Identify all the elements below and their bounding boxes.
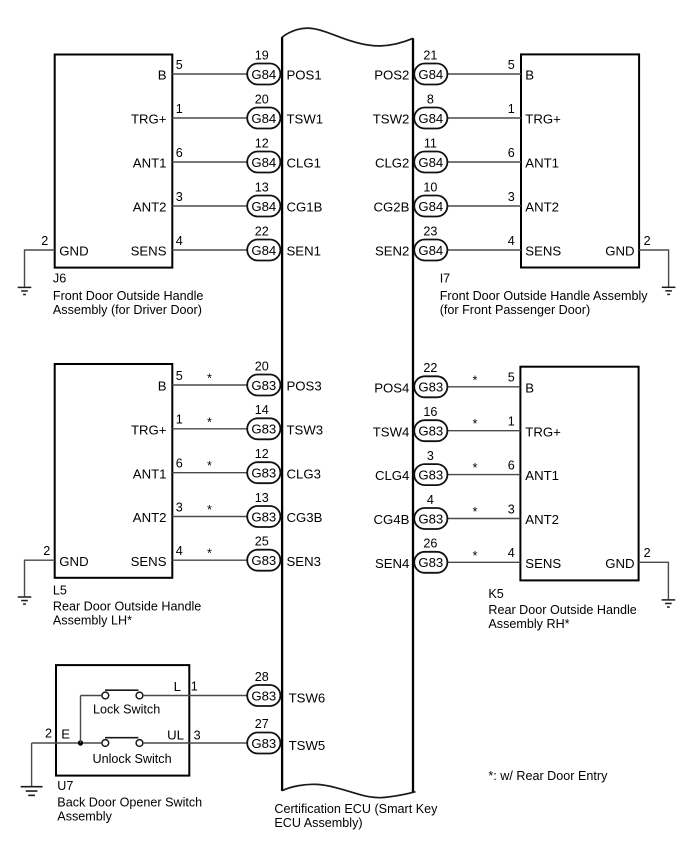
pin label ANT2 (right box) [525, 512, 559, 527]
connector oval G84 pin 21 (POS2) [414, 64, 447, 85]
svg-text:1: 1 [176, 413, 183, 427]
wire L5 pin 3 (ANT2) to G83 CG3B [172, 516, 248, 518]
net label TSW4 [373, 424, 410, 439]
connector oval G83 pin 26 (SEN4) [414, 552, 447, 573]
ground symbol at L5 GND [18, 597, 32, 604]
connector name G83 (TSW6 oval) [251, 688, 276, 703]
svg-text:*: * [207, 372, 212, 386]
connector name G84 (left oval) [251, 243, 276, 258]
svg-text:G83: G83 [251, 553, 276, 568]
pin number 5 (right box) [508, 371, 515, 385]
pin label ANT2 (left box) [133, 510, 167, 525]
pin number 5 (left box) [176, 58, 183, 72]
net label TSW1 [287, 112, 324, 127]
connector oval G83 pin 4 (CG4B) [414, 508, 447, 529]
connector name G84 (left oval) [251, 111, 276, 126]
net label TSW2 [373, 112, 410, 127]
svg-text:TRG+: TRG+ [131, 112, 167, 127]
pin number 6 (right box) [508, 458, 515, 472]
pin number 1 (left box) [176, 413, 183, 427]
svg-text:16: 16 [423, 405, 437, 419]
net label POS1 [287, 68, 322, 83]
pin number 14 above left oval [255, 403, 269, 417]
svg-text:I7: I7 [440, 271, 451, 285]
asterisk footnote mark (right) [473, 549, 478, 563]
connector name G84 (right oval) [418, 243, 443, 258]
connector oval G83 pin 28 (TSW6) [247, 685, 280, 706]
svg-text:CLG4: CLG4 [375, 468, 409, 483]
pin number 5 (right box) [508, 58, 515, 72]
svg-text:TSW4: TSW4 [373, 424, 410, 439]
connector oval G84 pin 13 (CG1B) [247, 196, 280, 217]
net label SEN4 [375, 556, 409, 571]
pin label TRG+ (left box) [131, 112, 167, 127]
svg-text:TRG+: TRG+ [525, 112, 561, 127]
svg-text:ANT1: ANT1 [525, 156, 559, 171]
connector oval G84 pin 11 (CLG2) [414, 152, 447, 173]
svg-text:CG1B: CG1B [287, 200, 323, 215]
svg-text:3: 3 [427, 449, 434, 463]
svg-text:ANT1: ANT1 [133, 156, 167, 171]
connector name G83 (right oval) [418, 511, 443, 526]
svg-text:1: 1 [508, 102, 515, 116]
pin number 13 above left oval [255, 180, 269, 194]
pin number 27 above G83 TSW5 [255, 717, 269, 731]
svg-text:22: 22 [423, 361, 437, 375]
net label CG4B [373, 512, 409, 527]
net label TSW3 [287, 422, 324, 437]
asterisk footnote mark (left) [207, 503, 212, 517]
pin label ANT2 (right box) [525, 200, 559, 215]
Certification ECU band torn top edge [282, 28, 413, 46]
svg-text:POS1: POS1 [287, 68, 322, 83]
connector oval G84 pin 10 (CG2B) [414, 196, 447, 217]
svg-text:*: * [207, 503, 212, 517]
svg-text:*: * [207, 459, 212, 473]
pin label TRG+ (right box) [525, 424, 561, 439]
svg-text:*: * [473, 417, 478, 431]
connector oval G84 pin 23 (SEN2) [414, 240, 447, 261]
svg-text:(for Front Passenger Door): (for Front Passenger Door) [440, 303, 590, 317]
wire L5 pin 4 (SENS) to G83 SEN3 [172, 559, 248, 561]
svg-text:27: 27 [255, 717, 269, 731]
pin number 28 above G83 TSW6 [255, 670, 269, 684]
pin label TRG+ (right box) [525, 112, 561, 127]
svg-text:2: 2 [644, 234, 651, 248]
wire G84 POS2 to I7 pin 5 (B) [446, 73, 521, 75]
svg-text:G84: G84 [251, 243, 276, 258]
ground symbol at K5 GND [662, 600, 676, 607]
svg-text:12: 12 [255, 136, 269, 150]
wire G83 SEN4 to K5 pin 4 (SENS) [446, 561, 520, 563]
svg-text:5: 5 [508, 371, 515, 385]
Certification ECU band right edge (wire trunk) [412, 38, 414, 792]
pin label E (U7) [61, 726, 70, 741]
svg-text:TSW2: TSW2 [373, 112, 410, 127]
pin label L (U7 lock) [174, 679, 181, 694]
pin label SENS (right box) [525, 556, 561, 571]
svg-text:4: 4 [176, 544, 183, 558]
svg-text:*: * [473, 373, 478, 387]
svg-text:3: 3 [176, 190, 183, 204]
net label CG2B [373, 200, 409, 215]
svg-text:L: L [174, 679, 181, 694]
pin label ANT1 (right box) [525, 156, 559, 171]
connector box L5 (Rear Door Outside Handle Assembly LH) [55, 364, 173, 578]
svg-text:4: 4 [508, 546, 515, 560]
label Lock Switch [93, 703, 160, 717]
asterisk footnote mark (right) [473, 417, 478, 431]
wire J6 pin 5 (B) to G84 POS1 [172, 73, 248, 75]
wire J6 pin 4 (SENS) to G84 SEN1 [172, 249, 248, 251]
svg-text:26: 26 [423, 537, 437, 551]
svg-text:TSW3: TSW3 [287, 422, 324, 437]
svg-text:1: 1 [508, 415, 515, 429]
svg-text:TSW5: TSW5 [289, 738, 326, 753]
pin number 3 (left box) [176, 190, 183, 204]
svg-text:POS3: POS3 [287, 379, 322, 394]
wire G84 CLG2 to I7 pin 6 (ANT1) [446, 161, 521, 163]
svg-text:G83: G83 [418, 468, 443, 483]
svg-text:2: 2 [644, 546, 651, 560]
svg-text:23: 23 [423, 224, 437, 238]
svg-text:Assembly: Assembly [57, 809, 112, 823]
pin number 3 (left box) [176, 500, 183, 514]
svg-text:B: B [158, 379, 167, 394]
svg-text:ANT2: ANT2 [525, 200, 559, 215]
asterisk footnote mark (right) [473, 373, 478, 387]
net label POS2 [374, 68, 409, 83]
pin number 3 (right box) [508, 502, 515, 516]
pin label GND (K5) [605, 556, 634, 571]
connector name G83 (TSW5 oval) [251, 736, 276, 751]
svg-text:G84: G84 [418, 111, 443, 126]
pin number 4 (right box) [508, 546, 515, 560]
asterisk footnote mark (left) [207, 372, 212, 386]
wire J6 pin 3 (ANT2) to G84 CG1B [172, 205, 248, 207]
connector name G84 (left oval) [251, 67, 276, 82]
ground symbol at U7 E (larger) [21, 787, 43, 796]
wire G83 CG4B to K5 pin 3 (ANT2) [446, 518, 520, 520]
caption I7 Front Door Outside Handle Assembly (for Front Passenger Door) [440, 271, 649, 317]
ground symbol at J6 GND [18, 287, 32, 294]
svg-text:6: 6 [508, 458, 515, 472]
Lock Switch blade (open) [105, 689, 138, 691]
svg-text:6: 6 [176, 146, 183, 160]
pin number 6 (left box) [176, 457, 183, 471]
svg-text:5: 5 [176, 58, 183, 72]
pin label GND (J6) [59, 244, 88, 259]
svg-text:GND: GND [605, 244, 634, 259]
junction dot node E inside U7 [78, 740, 83, 745]
svg-text:21: 21 [423, 48, 437, 62]
net label CLG2 [375, 156, 409, 171]
svg-text:1: 1 [176, 102, 183, 116]
connector oval G83 pin 20 (POS3) [247, 375, 280, 396]
net label SEN1 [287, 244, 321, 259]
connector name G84 (right oval) [418, 111, 443, 126]
label Unlock Switch [93, 752, 172, 766]
svg-text:1: 1 [191, 680, 198, 694]
net label TSW5 [289, 738, 326, 753]
svg-text:20: 20 [255, 92, 269, 106]
pin label ANT1 (right box) [525, 468, 559, 483]
pin number 12 above left oval [255, 136, 269, 150]
svg-text:G84: G84 [418, 155, 443, 170]
connector name G83 (right oval) [418, 380, 443, 395]
svg-text:SENS: SENS [525, 556, 561, 571]
wire ground drop from U7 E [31, 743, 33, 786]
svg-text:Assembly (for Driver Door): Assembly (for Driver Door) [53, 303, 202, 317]
pin number 4 (left box) [176, 234, 183, 248]
connector oval G83 pin 27 (TSW5) [247, 733, 280, 754]
pin label B (left box) [158, 379, 167, 394]
svg-text:*: w/ Rear Door Entry: *: w/ Rear Door Entry [488, 769, 608, 783]
wire J6 pin 1 (TRG+) to G84 TSW1 [172, 117, 248, 119]
svg-text:SEN3: SEN3 [287, 554, 321, 569]
svg-text:6: 6 [508, 146, 515, 160]
svg-text:Front Door Outside Handle: Front Door Outside Handle [53, 289, 204, 303]
pin label TRG+ (left box) [131, 422, 167, 437]
svg-text:G83: G83 [251, 509, 276, 524]
svg-text:5: 5 [508, 58, 515, 72]
svg-text:G84: G84 [418, 243, 443, 258]
svg-text:CLG2: CLG2 [375, 156, 409, 171]
svg-text:25: 25 [255, 535, 269, 549]
svg-text:GND: GND [59, 554, 88, 569]
svg-text:G83: G83 [418, 380, 443, 395]
pin number 11 above right oval [424, 136, 437, 150]
svg-text:14: 14 [255, 403, 269, 417]
wire L5 pin 1 (TRG+) to G83 TSW3 [172, 428, 248, 430]
net label CG3B [287, 510, 323, 525]
pin number 23 above right oval [423, 224, 437, 238]
connector name G83 (left oval) [251, 378, 276, 393]
pin number 4 (left box) [176, 544, 183, 558]
pin label ANT1 (left box) [133, 156, 167, 171]
svg-text:G83: G83 [251, 422, 276, 437]
caption K5 Rear Door Outside Handle Assembly RH [488, 587, 636, 631]
pin number 12 above left oval [255, 447, 269, 461]
caption L5 Rear Door Outside Handle Assembly LH [53, 584, 201, 628]
connector name G83 (right oval) [418, 468, 443, 483]
pin label SENS (left box) [131, 554, 167, 569]
pin label GND (I7) [605, 244, 634, 259]
svg-text:POS2: POS2 [374, 68, 409, 83]
svg-text:4: 4 [508, 234, 515, 248]
pin number 2 (I7 GND) [644, 234, 651, 248]
pin number 10 above right oval [423, 180, 437, 194]
svg-text:G84: G84 [251, 111, 276, 126]
pin number 6 (right box) [508, 146, 515, 160]
wire L5 pin 2 (GND) to ground [25, 560, 55, 596]
svg-text:Front Door Outside Handle Asse: Front Door Outside Handle Assembly [440, 289, 649, 303]
net label POS3 [287, 379, 322, 394]
connector oval G83 pin 25 (SEN3) [247, 550, 280, 571]
svg-text:G83: G83 [251, 736, 276, 751]
connector name G83 (right oval) [418, 555, 443, 570]
svg-text:L5: L5 [53, 584, 67, 598]
pin number 3 (U7) [194, 729, 201, 743]
svg-text:G83: G83 [418, 555, 443, 570]
svg-text:13: 13 [255, 491, 269, 505]
pin number 1 (left box) [176, 102, 183, 116]
svg-text:G84: G84 [418, 67, 443, 82]
svg-text:E: E [61, 726, 70, 741]
wire G84 SEN2 to I7 pin 4 (SENS) [446, 249, 521, 251]
svg-text:B: B [158, 68, 167, 83]
connector name G84 (right oval) [418, 155, 443, 170]
pin number 22 above right oval [423, 361, 437, 375]
svg-text:CG3B: CG3B [287, 510, 323, 525]
svg-text:CLG3: CLG3 [287, 466, 321, 481]
svg-text:SENS: SENS [131, 244, 167, 259]
svg-text:ANT1: ANT1 [133, 466, 167, 481]
connector oval G84 pin 12 (CLG1) [247, 152, 280, 173]
pin label B (right box) [525, 380, 534, 395]
svg-text:TRG+: TRG+ [131, 422, 167, 437]
svg-text:*: * [473, 505, 478, 519]
connector box J6 (Front Door Outside Handle Assembly for Driver Door) [55, 55, 173, 268]
pin number 6 (left box) [176, 146, 183, 160]
svg-text:SENS: SENS [131, 554, 167, 569]
pin label ANT1 (left box) [133, 466, 167, 481]
connector oval G83 pin 12 (CLG3) [247, 462, 280, 483]
connector name G83 (left oval) [251, 422, 276, 437]
svg-text:Rear Door Outside Handle: Rear Door Outside Handle [488, 603, 636, 617]
wire Unlock Switch to G83 TSW5 (U7 pin 3, UL) [143, 742, 248, 744]
ground symbol at I7 GND [662, 287, 676, 294]
svg-text:J6: J6 [53, 271, 66, 285]
svg-text:3: 3 [508, 190, 515, 204]
svg-text:2: 2 [41, 234, 48, 248]
svg-text:ANT1: ANT1 [525, 468, 559, 483]
pin number 4 (right box) [508, 234, 515, 248]
wire I7 pin 2 (GND) to ground [639, 250, 669, 287]
asterisk footnote mark (left) [207, 459, 212, 473]
svg-text:SEN1: SEN1 [287, 244, 321, 259]
pin number 1 (right box) [508, 415, 515, 429]
svg-text:12: 12 [255, 447, 269, 461]
connector name G83 (right oval) [418, 424, 443, 439]
svg-text:TRG+: TRG+ [525, 424, 561, 439]
net label CLG1 [287, 156, 321, 171]
pin number 2 (J6 GND) [41, 234, 48, 248]
svg-text:Assembly LH*: Assembly LH* [53, 614, 132, 628]
svg-text:3: 3 [194, 729, 201, 743]
pin number 3 above right oval [427, 449, 434, 463]
svg-text:G83: G83 [251, 466, 276, 481]
wire K5 pin 2 (GND) to ground [639, 562, 669, 599]
wire node E branch to Lock Switch left contact [81, 695, 102, 697]
svg-text:Unlock Switch: Unlock Switch [93, 752, 172, 766]
wire Lock Switch to G83 TSW6 (U7 pin 1, L) [143, 695, 248, 697]
pin number 1 (U7) [191, 680, 198, 694]
svg-text:CLG1: CLG1 [287, 156, 321, 171]
svg-text:SENS: SENS [525, 244, 561, 259]
svg-text:SEN4: SEN4 [375, 556, 409, 571]
svg-text:8: 8 [427, 92, 434, 106]
pin number 13 above left oval [255, 491, 269, 505]
svg-text:G83: G83 [251, 688, 276, 703]
svg-text:U7: U7 [57, 779, 73, 793]
svg-text:K5: K5 [488, 587, 503, 601]
Certification ECU band torn bottom edge [282, 784, 415, 797]
asterisk footnote mark (right) [473, 505, 478, 519]
asterisk footnote mark (right) [473, 461, 478, 475]
svg-text:*: * [207, 415, 212, 429]
pin number 21 above right oval [423, 48, 437, 62]
svg-text:*: * [207, 547, 212, 561]
svg-text:4: 4 [427, 493, 434, 507]
wire J6 pin 2 (GND) to ground [25, 250, 55, 287]
net label CLG3 [287, 466, 321, 481]
svg-text:G84: G84 [251, 67, 276, 82]
svg-text:28: 28 [255, 670, 269, 684]
net label SEN2 [375, 244, 409, 259]
pin label B (right box) [525, 68, 534, 83]
pin label ANT2 (left box) [133, 200, 167, 215]
pin number 20 above left oval [255, 92, 269, 106]
svg-text:SEN2: SEN2 [375, 244, 409, 259]
svg-text:GND: GND [605, 556, 634, 571]
svg-text:13: 13 [255, 180, 269, 194]
connector oval G83 pin 13 (CG3B) [247, 506, 280, 527]
connector box U7 (Back Door Opener Switch Assembly) [56, 665, 189, 776]
asterisk footnote mark (left) [207, 547, 212, 561]
wire branch from node E up to Lock Switch [80, 696, 82, 744]
svg-text:GND: GND [59, 244, 88, 259]
pin label SENS (right box) [525, 244, 561, 259]
pin number 4 above right oval [427, 493, 434, 507]
svg-text:11: 11 [424, 136, 437, 150]
svg-text:20: 20 [255, 359, 269, 373]
svg-text:G84: G84 [251, 199, 276, 214]
svg-text:G84: G84 [418, 199, 443, 214]
svg-text:CG4B: CG4B [373, 512, 409, 527]
svg-text:19: 19 [255, 48, 269, 62]
svg-text:ANT2: ANT2 [133, 200, 167, 215]
connector name G83 (left oval) [251, 509, 276, 524]
Unlock Switch blade (open) [105, 737, 138, 739]
Unlock Switch contact circles [102, 740, 143, 747]
pin label B (left box) [158, 68, 167, 83]
pin label SENS (left box) [131, 244, 167, 259]
net label POS4 [374, 380, 409, 395]
pin number 8 above right oval [427, 92, 434, 106]
caption Certification ECU (Smart Key ECU Assembly) [274, 802, 438, 830]
pin number 22 above left oval [255, 224, 269, 238]
connector oval G84 pin 19 (POS1) [247, 64, 280, 85]
caption U7 Back Door Opener Switch Assembly [57, 779, 202, 823]
connector box I7 (Front Door Outside Handle Assembly for Front Passenger Door) [521, 54, 639, 267]
pin number 1 (right box) [508, 102, 515, 116]
connector name G83 (left oval) [251, 466, 276, 481]
svg-text:ANT2: ANT2 [133, 510, 167, 525]
svg-text:Rear Door Outside Handle: Rear Door Outside Handle [53, 600, 201, 614]
connector name G84 (right oval) [418, 67, 443, 82]
svg-text:G83: G83 [418, 511, 443, 526]
wire G83 TSW4 to K5 pin 1 (TRG+) [446, 430, 520, 432]
wire G83 POS4 to K5 pin 5 (B) [446, 386, 520, 388]
svg-text:10: 10 [423, 180, 437, 194]
pin number 16 above right oval [423, 405, 437, 419]
pin number 2 (U7 E) [45, 726, 52, 740]
connector box K5 (Rear Door Outside Handle Assembly RH) [520, 367, 638, 581]
pin number 2 (L5 GND) [43, 544, 50, 558]
connector oval G84 pin 22 (SEN1) [247, 240, 280, 261]
svg-text:2: 2 [45, 726, 52, 740]
